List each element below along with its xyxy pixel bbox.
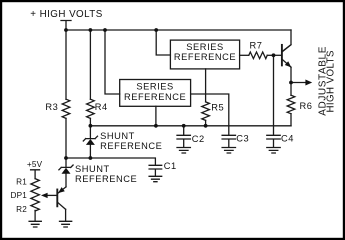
junction dots low bus <box>64 156 68 160</box>
ground C4 <box>267 148 280 154</box>
svg-text:C1: C1 <box>164 161 177 171</box>
wire R3 drop <box>65 30 67 99</box>
svg-text:R3: R3 <box>45 102 58 112</box>
resistor R5 <box>202 102 210 120</box>
capacitor C3 <box>222 135 235 147</box>
ground pot <box>29 221 41 227</box>
arrowhead wiper <box>41 193 48 198</box>
resistor R7 <box>249 52 267 59</box>
arrowhead Q2 emitter (PNP, points to bar) <box>58 187 65 193</box>
svg-text:R1: R1 <box>16 177 27 186</box>
wire U2 right to C3 <box>191 94 229 135</box>
wire middle box feed <box>105 30 120 94</box>
wire emitter down <box>290 67 292 82</box>
resistor R4 <box>87 99 95 118</box>
wire pot bottom <box>34 210 36 221</box>
svg-text:C3: C3 <box>236 134 249 144</box>
ground Q2 <box>60 221 72 227</box>
arrowhead Q1 emitter <box>285 61 292 67</box>
junction dot emitter node <box>289 81 293 85</box>
svg-text:DP1: DP1 <box>10 191 27 200</box>
wire U1 bottom to R5 <box>205 69 207 102</box>
svg-text:REFERENCE: REFERENCE <box>100 141 162 151</box>
junction dot base node <box>272 53 276 57</box>
node +5V terminal <box>31 170 40 179</box>
zener D2 triangle <box>62 168 71 174</box>
svg-text:HIGH VOLTS: HIGH VOLTS <box>325 50 336 113</box>
svg-text:SHUNT: SHUNT <box>100 131 135 141</box>
transistor Q2 collector <box>58 203 66 210</box>
svg-text:C2: C2 <box>192 134 205 144</box>
resistor R3 <box>62 99 70 118</box>
wire R4 bottom <box>89 118 91 125</box>
svg-text:R6: R6 <box>300 101 313 111</box>
wire U1 to R7 <box>240 54 249 56</box>
box series reference U2 <box>120 80 191 107</box>
transistor Q1 base bar <box>281 45 283 66</box>
wire collector drop <box>282 30 291 52</box>
svg-text:R7: R7 <box>250 40 263 50</box>
wire R4 drop <box>89 30 91 99</box>
svg-text:R4: R4 <box>95 102 108 112</box>
transistor Q1 collector <box>283 45 291 52</box>
svg-text:REFERENCE: REFERENCE <box>75 174 137 184</box>
svg-text:+ HIGH VOLTS: + HIGH VOLTS <box>30 9 102 20</box>
svg-text:R5: R5 <box>211 103 224 113</box>
capacitor C4 <box>267 135 280 147</box>
capacitor C2 <box>177 126 190 147</box>
svg-text:REFERENCE: REFERENCE <box>174 52 236 62</box>
capacitor C1 <box>149 165 162 176</box>
svg-text:C4: C4 <box>281 134 294 144</box>
ground C3 <box>222 148 235 154</box>
wire Q2 base to wiper <box>46 194 57 196</box>
node +HIGH VOLTS terminal <box>61 21 71 31</box>
wire mid bus <box>90 125 291 127</box>
resistor R6 <box>287 95 295 113</box>
potentiometer R1 DP1 R2 <box>31 179 39 211</box>
svg-text:R2: R2 <box>16 205 27 214</box>
svg-text:SERIES: SERIES <box>186 42 223 52</box>
svg-text:+5V: +5V <box>27 160 43 169</box>
wire D2 to Q2 emitter <box>58 187 66 193</box>
wire R6 bottom <box>290 114 292 126</box>
wire top bus <box>66 29 291 31</box>
wire R7 to base <box>267 54 281 56</box>
svg-text:SHUNT: SHUNT <box>75 164 110 174</box>
svg-text:REFERENCE: REFERENCE <box>124 92 186 102</box>
zener D1 triangle <box>86 139 95 145</box>
ground C2 <box>177 148 190 154</box>
wire output arrow <box>291 82 307 84</box>
junction dots top bus <box>64 28 68 32</box>
wire R6 top <box>290 83 292 96</box>
wire R3 bottom <box>65 118 67 158</box>
wire C4 drop <box>273 55 275 135</box>
arrowhead output <box>305 80 312 86</box>
wire top box feed <box>156 30 170 55</box>
zener D2 shunt reference <box>59 158 73 187</box>
transistor Q1 emitter <box>283 60 291 67</box>
junction dots mid bus <box>89 124 93 128</box>
wire Q2 collector down <box>65 209 67 221</box>
transistor Q2 base bar <box>56 190 58 207</box>
wire U2 bottom pin <box>155 106 157 126</box>
zener D1 shunt reference <box>83 126 97 158</box>
ground C1 <box>149 176 162 181</box>
box series reference U1 <box>170 40 239 69</box>
wire R5 bottom <box>205 120 207 126</box>
wire low bus <box>66 158 155 165</box>
svg-text:SERIES: SERIES <box>136 82 173 92</box>
